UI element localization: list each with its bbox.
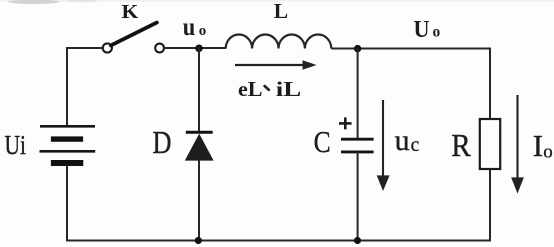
label eL iL [238,77,301,101]
svg-text:K: K [122,1,139,23]
svg-text:R: R [451,127,471,163]
wire diode branch upper [198,47,200,132]
battery Ui [40,126,96,166]
switch K [103,23,164,53]
wire inductor to right corner [331,48,491,50]
svg-text:o: o [199,23,207,39]
wire left rail lower [66,166,68,241]
svg-text:I: I [533,128,543,163]
wire right rail upper [489,48,491,120]
arrow uc [377,100,390,191]
wire left rail upper [66,47,68,126]
wire switch to inductor [164,47,226,49]
node uo junction dot [195,45,203,53]
svg-text:eL: eL [238,77,263,101]
svg-text:o: o [433,24,441,41]
wire bottom rail [66,240,491,242]
svg-text:C: C [314,125,331,159]
label uc [395,124,420,157]
svg-text:U: U [414,17,430,43]
svg-text:u: u [183,14,196,41]
svg-text:o: o [543,142,553,163]
resistor R [480,119,500,169]
junction dot capacitor-bottom [354,237,361,244]
scan smudge top edge [0,0,554,4]
label plus polarity [339,117,352,129]
node output junction dot [354,45,361,52]
wire top-left horizontal [66,47,103,49]
inductor L [226,34,332,48]
svg-text:c: c [411,135,420,156]
svg-text:Ui: Ui [5,129,27,160]
label Io [533,128,553,163]
junction dot diode-bottom [195,237,202,244]
diode D [185,132,214,160]
wire diode branch lower [198,160,200,241]
svg-text:iL: iL [276,77,302,101]
arrow eL iL [235,60,317,70]
wire capacitor branch lower [357,152,359,241]
capacitor C [341,139,374,152]
svg-text:D: D [153,125,172,160]
wire right rail lower [489,169,491,241]
svg-text:L: L [274,0,288,23]
svg-text:u: u [395,124,410,157]
arrow Io [511,95,524,194]
wire capacitor branch upper [357,48,359,139]
